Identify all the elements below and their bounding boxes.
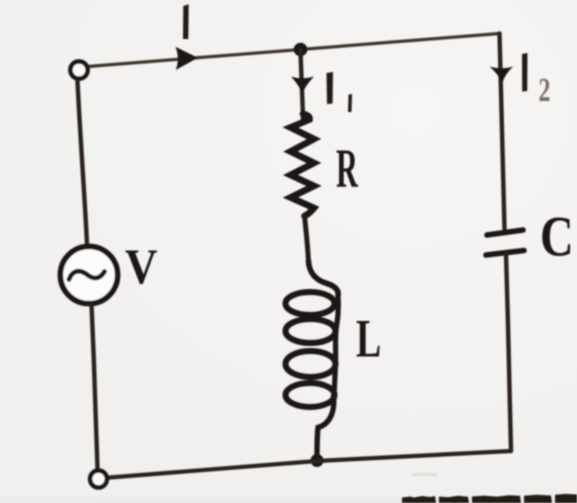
label I (top current)	[183, 4, 189, 39]
inductor L right-side connector	[334, 295, 338, 396]
inductor L (coil entry)	[309, 261, 339, 295]
label R	[336, 137, 358, 199]
inductor L loop 1	[286, 292, 335, 315]
wire: left vertical lower (source to bottom terminal)	[92, 304, 98, 469]
svg-text:V: V	[125, 240, 157, 295]
wire: bottom right segment	[317, 451, 511, 461]
label V	[125, 240, 157, 295]
svg-text:C: C	[540, 205, 574, 269]
wire: bottom left segment	[110, 461, 318, 478]
source V (AC source circle)	[60, 246, 117, 303]
svg-text:2: 2	[539, 72, 551, 109]
resistor R (zigzag)	[291, 114, 315, 216]
wire: junction down to resistor	[301, 50, 304, 121]
scan artifact: dark cropped text band bottom right	[402, 473, 577, 503]
svg-text:L: L	[356, 309, 381, 369]
label L	[356, 309, 381, 369]
wire: right vertical lower (capacitor to bottom)	[506, 254, 511, 451]
source V tilde	[69, 271, 105, 279]
scan artifact: faint smudge	[412, 473, 437, 476]
inductor L coil exit	[317, 396, 334, 458]
capacitor C top plate	[487, 230, 523, 235]
inductor L loop 2	[286, 319, 336, 343]
label C	[540, 205, 574, 269]
wire: right vertical upper (to capacitor)	[500, 34, 505, 230]
inductor L loop 4	[286, 383, 335, 407]
terminal: top-left open circle	[70, 61, 87, 78]
wire: top horizontal (node A to node B)	[88, 34, 500, 67]
arrow for current I2	[490, 67, 514, 83]
arrow for current I on top wire	[176, 47, 198, 70]
wire: left vertical upper (terminal to source)	[78, 81, 88, 244]
arrow for current I1	[291, 77, 314, 94]
svg-text:R: R	[336, 137, 358, 199]
paper edge band bottom	[0, 497, 577, 503]
inductor L loop 3	[286, 351, 336, 377]
label I2	[522, 53, 528, 92]
node: bottom junction dot	[311, 454, 324, 467]
label I1	[327, 72, 334, 104]
wire: resistor to inductor	[305, 216, 309, 263]
capacitor C bottom plate	[486, 251, 524, 256]
label subscript 2 of I2	[539, 72, 551, 109]
terminal: bottom-left open circle	[90, 471, 107, 488]
label subscript 1 of I1	[348, 94, 352, 112]
node: top junction dot	[294, 43, 308, 57]
